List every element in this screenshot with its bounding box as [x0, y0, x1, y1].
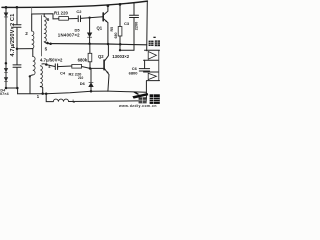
svg-text:R1 220: R1 220 — [54, 10, 68, 15]
lamp tube edge — [158, 50, 160, 80]
svg-text:L: L — [73, 99, 76, 104]
wire bottom long line — [18, 91, 108, 94]
labels — [0, 9, 160, 104]
node midline D5 — [88, 43, 91, 46]
node w1 bottom — [41, 92, 44, 95]
wire top rail — [2, 1, 147, 7]
wire base drive — [46, 65, 55, 67]
node base-drive — [45, 63, 48, 66]
capacitor C4 — [55, 64, 57, 70]
node w5 out — [46, 42, 49, 45]
svg-text:6800: 6800 — [129, 70, 139, 75]
node R2 out — [89, 67, 92, 70]
node on wire1 — [5, 62, 8, 64]
capacitor C3 — [133, 3, 135, 15]
node R5 corner — [119, 49, 121, 51]
wire return — [108, 91, 146, 92]
diode VD3 — [4, 78, 7, 82]
svg-text:www.dzdiy.com.cn: www.dzdiy.com.cn — [118, 104, 157, 108]
node midline Q1e — [107, 43, 110, 46]
svg-text:680: 680 — [114, 33, 118, 39]
capacitor C1a — [13, 25, 21, 27]
wire midpoint link — [17, 48, 33, 50]
node D6 bottom — [90, 90, 93, 93]
wire left column 2 with C1 pair — [16, 7, 18, 88]
node D5 top — [88, 17, 90, 19]
node Q1 collector rail — [107, 4, 110, 7]
svg-text:C2: C2 — [76, 9, 82, 14]
wire bottom-left rail — [6, 88, 18, 94]
svg-text:Q1: Q1 — [97, 26, 103, 31]
svg-text:C4: C4 — [60, 71, 66, 76]
wire midline — [48, 44, 147, 45]
transistor Q1 — [102, 13, 104, 21]
diode VD2 — [4, 68, 7, 72]
core — [40, 16, 42, 57]
svg-text:Q2: Q2 — [98, 54, 104, 59]
diode VD1 — [4, 13, 8, 17]
svg-text:4.7μ/250V×2 C1: 4.7μ/250V×2 C1 — [10, 14, 16, 57]
node w5 out 2 — [49, 42, 52, 45]
transformer winding 3 — [32, 49, 34, 57]
wire to Q1 base — [81, 17, 103, 19]
transformer winding 5 — [44, 33, 46, 41]
svg-text:1N4007×2: 1N4007×2 — [58, 32, 80, 37]
node midline R5 — [119, 43, 122, 46]
node wire2 top — [16, 6, 19, 9]
diode D5 — [89, 18, 91, 33]
resistor R5 — [119, 4, 121, 26]
label lamp chars — [149, 37, 160, 47]
node L riser — [45, 92, 48, 95]
svg-text:07×4: 07×4 — [0, 92, 9, 96]
transistor Q2 — [103, 60, 105, 70]
wire w2 rail stub — [31, 7, 33, 14]
wire left column 1 — [5, 7, 7, 88]
svg-text:4: 4 — [48, 64, 51, 69]
svg-text:680k: 680k — [78, 58, 88, 63]
svg-text:13003×2: 13003×2 — [112, 54, 129, 59]
svg-text:210: 210 — [78, 76, 84, 80]
svg-text:R5: R5 — [110, 27, 114, 32]
transformer winding 2 — [31, 14, 33, 31]
resistor R1 — [53, 18, 59, 20]
transformer winding 1 — [42, 63, 46, 66]
resistor R2 — [72, 65, 82, 69]
lamp filament 1 — [145, 49, 160, 51]
svg-text:6: 6 — [47, 17, 50, 22]
resistor R6 680k — [89, 44, 91, 53]
inductor L — [46, 94, 53, 102]
svg-text:4.7μ/50V×2: 4.7μ/50V×2 — [40, 58, 63, 63]
wire right border drop — [146, 1, 149, 51]
capacitor C1b — [13, 65, 21, 67]
svg-text:1: 1 — [37, 94, 40, 99]
node wire1 top — [5, 6, 8, 9]
node C1 midpoint — [16, 47, 19, 50]
svg-text:D6: D6 — [80, 81, 86, 86]
transformer winding 6 — [44, 17, 46, 34]
node winding 3 — [29, 75, 31, 77]
svg-text:5: 5 — [45, 46, 48, 51]
svg-text:2200: 2200 — [134, 22, 138, 30]
node bottom-left — [5, 87, 8, 90]
watermark logo — [118, 92, 160, 108]
svg-text:C3: C3 — [124, 21, 130, 26]
capacitor C2 — [78, 16, 80, 22]
node bottom-left 2 — [16, 87, 19, 90]
svg-text:2: 2 — [25, 31, 28, 36]
capacitor C6 — [144, 60, 146, 68]
node R5 rail — [119, 3, 122, 6]
diode D6 — [90, 69, 92, 83]
wire winding6 top link — [32, 14, 53, 19]
lamp filament 2 — [144, 71, 159, 73]
